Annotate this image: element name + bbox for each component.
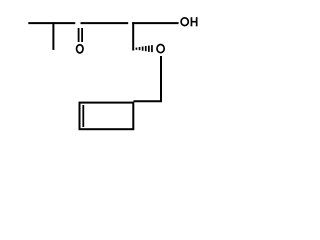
C=O double bond line 2 <box>81 28 83 42</box>
bond CH3-C(CH3) left arm <box>28 22 75 24</box>
bond O-CH2 vertical <box>160 56 162 101</box>
hashed wedge bond C4-O ether (stereo) <box>136 45 153 52</box>
C=O double bond line 1 <box>78 28 80 42</box>
OH label: O glyph <box>181 18 188 26</box>
cyclobutene ring <box>80 103 134 130</box>
bond CH3 down from isopropyl carbon <box>52 22 54 50</box>
ring double bond inner line <box>82 105 84 127</box>
bond C3-C4 vertical to stereocenter <box>132 22 134 50</box>
bond CH2-ring horizontal <box>134 100 163 102</box>
carbonyl O label <box>77 45 84 53</box>
ether O label <box>157 45 164 53</box>
bond C3-CH2OH to hydroxyl <box>132 22 178 24</box>
bond C2(carbonyl)-C3 <box>81 22 129 24</box>
OH label: H glyph <box>191 17 198 26</box>
